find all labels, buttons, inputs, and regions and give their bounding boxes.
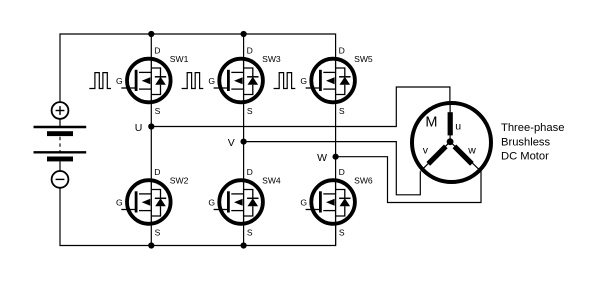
svg-text:v: v <box>423 144 429 156</box>
svg-text:U: U <box>135 122 143 134</box>
pulse waveform SW5 gate <box>274 73 296 89</box>
transistor SW1 <box>121 59 170 103</box>
svg-text:D: D <box>339 46 345 56</box>
wire SW1 column <box>150 34 152 246</box>
svg-text:S: S <box>155 106 161 116</box>
svg-text:D: D <box>154 167 160 177</box>
svg-text:SW2: SW2 <box>170 176 189 186</box>
pulse waveform SW3 gate <box>182 73 204 89</box>
battery cell 2 plates <box>34 152 87 161</box>
motor winding w lead <box>450 142 481 171</box>
svg-text:G: G <box>116 76 123 86</box>
svg-text:D: D <box>154 46 160 56</box>
node V junction <box>241 139 247 145</box>
svg-text:SW3: SW3 <box>262 54 281 64</box>
svg-text:w: w <box>467 144 476 156</box>
motor M1 body <box>412 103 491 182</box>
wire bottom rail <box>60 188 336 246</box>
transistor SW5 <box>306 59 355 103</box>
svg-text:D: D <box>247 167 253 177</box>
caption Three-phase Brushless DC Motor <box>501 122 564 163</box>
transistor SW5 labels <box>300 46 373 117</box>
svg-text:W: W <box>317 152 327 164</box>
transistor SW3 <box>214 59 263 103</box>
wire SW5 column <box>335 102 337 246</box>
wire top rail <box>60 34 336 102</box>
svg-text:G: G <box>208 198 215 208</box>
wire battery positive to plates <box>59 119 61 127</box>
svg-text:DC Motor: DC Motor <box>501 151 549 163</box>
svg-text:SW4: SW4 <box>262 176 281 186</box>
svg-text:S: S <box>155 228 161 238</box>
wire SW3 column <box>243 34 245 246</box>
motor winding w bar <box>454 146 472 164</box>
junction top rail at SW3 <box>241 31 247 37</box>
wire phase U to motor <box>151 87 450 127</box>
transistor SW3 labels <box>208 46 281 117</box>
motor winding u bar <box>448 112 453 135</box>
transistor SW4 labels <box>208 167 281 238</box>
svg-text:S: S <box>247 228 253 238</box>
svg-text:S: S <box>339 106 345 116</box>
svg-text:M: M <box>425 114 437 130</box>
svg-text:G: G <box>208 76 215 86</box>
svg-text:SW1: SW1 <box>170 54 189 64</box>
transistor SW2 <box>121 180 170 224</box>
svg-text:D: D <box>339 167 345 177</box>
svg-text:G: G <box>116 198 123 208</box>
motor winding u lead <box>449 102 451 142</box>
svg-text:Brushless: Brushless <box>501 136 551 148</box>
battery dashed link <box>59 137 61 152</box>
transistor SW6 <box>306 180 355 224</box>
transistor SW1 labels <box>116 46 189 117</box>
motor winding v lead <box>421 142 450 171</box>
pulse waveform SW1 gate <box>89 73 111 89</box>
battery BT1 negative terminal <box>52 171 69 188</box>
svg-text:Three-phase: Three-phase <box>501 122 564 134</box>
svg-text:G: G <box>300 198 307 208</box>
battery cell 1 plates <box>34 127 87 136</box>
transistor SW4 <box>214 180 263 224</box>
wire phase V to motor <box>244 142 421 195</box>
node W junction <box>333 154 339 160</box>
wire plates to battery negative <box>59 161 61 171</box>
svg-text:G: G <box>300 76 307 86</box>
svg-text:u: u <box>455 120 461 132</box>
svg-text:SW6: SW6 <box>354 176 373 186</box>
motor star point <box>447 138 454 145</box>
junction bottom rail at SW4 <box>241 242 247 248</box>
node U junction <box>148 123 154 129</box>
svg-text:SW5: SW5 <box>354 54 373 64</box>
transistor SW6 labels <box>300 167 373 238</box>
junction bottom rail at SW2 <box>148 242 154 248</box>
svg-text:S: S <box>247 106 253 116</box>
svg-text:D: D <box>247 46 253 56</box>
transistor SW2 labels <box>116 167 189 238</box>
svg-text:S: S <box>339 228 345 238</box>
motor winding v bar <box>428 146 446 164</box>
svg-text:V: V <box>228 137 235 149</box>
junction top rail at SW1 <box>148 31 154 37</box>
battery BT1 positive terminal <box>52 102 69 119</box>
wire phase W to motor <box>336 157 481 203</box>
